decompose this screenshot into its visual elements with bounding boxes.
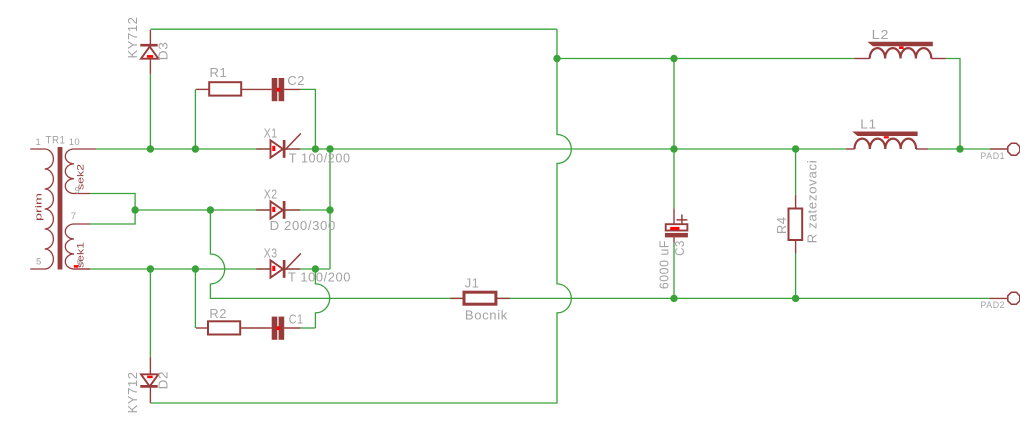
svg-text:1: 1 xyxy=(36,137,42,148)
wire second bus row to L2 xyxy=(557,58,855,60)
transformer TR1 xyxy=(30,147,96,270)
primary winding xyxy=(30,149,53,269)
pad PAD1 xyxy=(990,143,1020,155)
thyristor X1 xyxy=(256,133,301,157)
svg-text:C3: C3 xyxy=(672,240,687,256)
svg-text:C2: C2 xyxy=(287,73,305,88)
svg-text:KY712: KY712 xyxy=(125,17,140,59)
junction row B / tap xyxy=(131,206,138,213)
junction row C / R2 column xyxy=(192,265,199,272)
junction row C / C1 column xyxy=(312,265,319,272)
svg-text:L2: L2 xyxy=(872,27,890,42)
wire R1 branch vertical xyxy=(194,89,196,149)
svg-text:6: 6 xyxy=(77,257,83,268)
svg-text:6000 uF: 6000 uF xyxy=(657,240,672,289)
svg-text:10: 10 xyxy=(69,137,80,148)
svg-text:KY712: KY712 xyxy=(125,371,140,413)
secondary sek2 xyxy=(65,149,96,194)
wire main vertical bus with jumps over rowA and rowD, and bottom run to D2 xyxy=(150,29,571,403)
junction row A / C2 column xyxy=(312,145,319,152)
svg-text:D2: D2 xyxy=(156,371,171,390)
svg-text:X3: X3 xyxy=(264,246,278,261)
wire C2 branch corner down to row A xyxy=(300,89,315,149)
wire L2 right down to row A xyxy=(946,59,960,150)
svg-text:T 100/200: T 100/200 xyxy=(289,151,351,166)
pad PAD2 xyxy=(990,292,1020,304)
wire row B xyxy=(135,209,330,211)
svg-text:D3: D3 xyxy=(156,42,171,61)
wire D3 branch down to row A xyxy=(149,74,151,149)
junction bus2 / main bus xyxy=(553,55,560,62)
wire C3 column lower xyxy=(673,243,675,299)
svg-text:R zatezovaci: R zatezovaci xyxy=(805,160,820,244)
TR1 origin marker xyxy=(74,265,79,268)
capacitor C1 xyxy=(272,317,301,340)
wire row C horizontal xyxy=(90,268,330,270)
junction row D / C3 column xyxy=(670,295,677,302)
inductor L2 xyxy=(855,42,946,59)
svg-text:prim: prim xyxy=(34,193,45,221)
junction row C / D2 column xyxy=(147,265,154,272)
svg-text:J1: J1 xyxy=(465,276,480,291)
junction bus2 / C3 column xyxy=(670,55,677,62)
inductor L1 xyxy=(846,132,928,150)
junction row A / R1 column xyxy=(192,145,199,152)
wire D2 branch row C down to diode xyxy=(149,269,151,357)
junction row B / J column xyxy=(207,206,214,213)
wire row A main horizontal xyxy=(96,148,846,150)
diode D3 xyxy=(140,30,158,74)
svg-text:7: 7 xyxy=(71,211,77,222)
svg-text:L1: L1 xyxy=(860,117,877,132)
thyristor X3 xyxy=(256,253,301,277)
wire C1 right stub green xyxy=(300,327,315,329)
resistor R2 xyxy=(196,321,272,334)
svg-text:TR1: TR1 xyxy=(46,135,66,147)
svg-text:C1: C1 xyxy=(289,312,304,327)
wire R4 column upper xyxy=(795,149,797,195)
wire column X from row A to row C xyxy=(329,149,331,269)
junction row A / D3 column xyxy=(147,145,154,152)
junction row D / R4 column xyxy=(792,295,799,302)
wire transformer tap connector xyxy=(90,194,135,225)
svg-text:R1: R1 xyxy=(210,65,228,80)
wire R4 column lower xyxy=(795,254,797,299)
svg-text:T 100/200: T 100/200 xyxy=(288,270,351,285)
resistor R1 xyxy=(196,82,272,95)
junction row A / C3 column xyxy=(670,145,677,152)
junction row A / R4 column xyxy=(792,145,799,152)
wire top bus from D3 to main vertical xyxy=(150,28,557,30)
svg-text:X2: X2 xyxy=(264,187,278,202)
diode D2 xyxy=(140,357,158,403)
resistor R4 xyxy=(789,195,803,254)
wire row B down to row D with jump over row C, then row D horizontal xyxy=(210,210,991,298)
svg-text:PAD1: PAD1 xyxy=(980,151,1005,161)
svg-text:Bocnik: Bocnik xyxy=(465,307,508,322)
secondary sek1 xyxy=(65,224,90,269)
core bar xyxy=(58,147,63,270)
junction row A / column X xyxy=(326,145,333,152)
svg-text:5: 5 xyxy=(36,257,42,268)
svg-text:PAD2: PAD2 xyxy=(980,300,1005,310)
svg-text:R4: R4 xyxy=(774,216,789,234)
junction row B / column X xyxy=(326,206,333,213)
wire C3 column upper xyxy=(673,59,675,209)
shunt J1 xyxy=(450,292,510,304)
capacitor C3 xyxy=(665,208,688,242)
wire row A right of L1 to PAD1 xyxy=(928,148,991,150)
svg-text:R2: R2 xyxy=(209,306,227,321)
svg-text:X1: X1 xyxy=(264,126,278,141)
capacitor C2 xyxy=(272,78,301,101)
diode X2 xyxy=(256,201,300,219)
svg-text:D 200/300: D 200/300 xyxy=(270,218,336,233)
wire R2 branch vertical xyxy=(194,269,196,328)
pin 6 stub xyxy=(74,268,90,270)
svg-text:9: 9 xyxy=(75,185,81,196)
junction row A / L2 column xyxy=(956,145,963,152)
wire C1 branch up to row C with jump over row D xyxy=(315,269,329,328)
